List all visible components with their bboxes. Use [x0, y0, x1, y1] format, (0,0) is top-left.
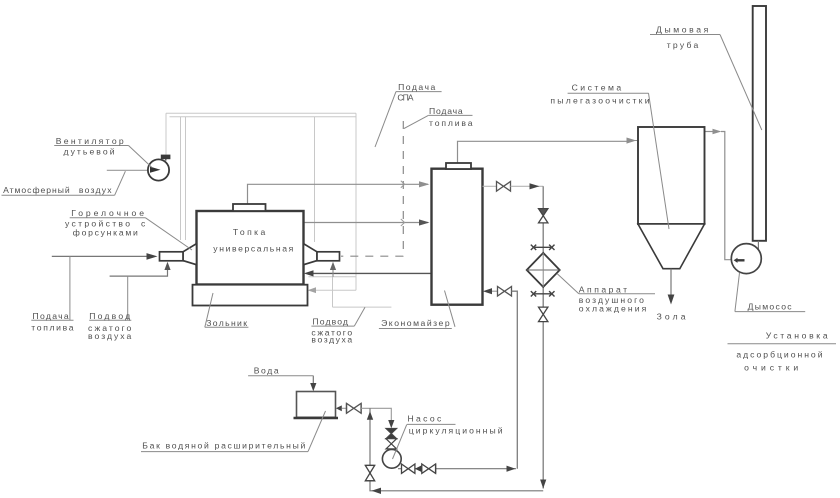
burner left (Горелочное устройство): [160, 244, 197, 265]
economizer body: [432, 169, 483, 305]
leader fuel right: [404, 115, 428, 128]
leader economizer: [445, 291, 456, 327]
underline Аппарат: [579, 293, 655, 295]
leader СПА: [375, 92, 396, 147]
underline Система: [568, 92, 649, 94]
wire: bottom return line: [370, 408, 543, 491]
underline Вентилятор: [54, 145, 128, 147]
svg-text:с: с: [141, 219, 146, 229]
wire: flue line from furnace cap: [248, 184, 429, 204]
cyclone body: [638, 127, 705, 224]
leader burner: [146, 218, 193, 250]
node air arrow up into right burner: [330, 262, 336, 270]
underline Вода: [248, 375, 313, 377]
fan circle: [148, 159, 169, 180]
leader tank: [308, 411, 326, 452]
underline Атмосферный: [2, 194, 115, 196]
wire: right burner air riser: [332, 270, 334, 277]
leader cooler: [557, 274, 579, 294]
node exhauster impeller mark: [737, 259, 745, 261]
leader atmospheric air: [115, 171, 126, 195]
node flow arrow up on left riser: [367, 411, 373, 420]
svg-text:Дымовая: Дымовая: [656, 24, 709, 34]
wire: pump discharge: [398, 468, 516, 470]
wire: fuel dashed line: [341, 121, 403, 256]
wire: duct drop right: [355, 113, 357, 290]
check valve above pump: [386, 429, 397, 439]
wire: duct drop to right burner: [314, 117, 316, 242]
svg-text:пылегазоочистки: пылегазоочистки: [550, 96, 649, 106]
leader chimney: [720, 35, 762, 131]
svg-text:Атмосферный: Атмосферный: [3, 185, 70, 195]
svg-text:СПА: СПА: [397, 93, 413, 103]
wire: top air duct horizontal (double): [166, 112, 356, 114]
valve on discharge 1: [402, 464, 415, 473]
svg-text:Подача: Подача: [429, 106, 463, 116]
wire: return riser: [512, 291, 518, 469]
wire: to riser: [511, 185, 544, 187]
svg-text:Зольник: Зольник: [206, 318, 247, 328]
svg-text:Подача: Подача: [398, 82, 435, 92]
svg-text:универсальная: универсальная: [213, 244, 293, 254]
underline Дымовая: [650, 34, 720, 36]
valve on left riser: [365, 465, 374, 480]
underline Подача топлива: [428, 114, 472, 116]
underline Горелочное: [70, 217, 146, 219]
underline Подача СПА: [396, 91, 442, 93]
valve on return line: [498, 287, 512, 297]
underline Дымосос: [735, 311, 805, 313]
node air arrow left into furnace: [304, 270, 314, 276]
node flow arrow right into riser: [507, 466, 516, 472]
leader fan: [129, 146, 152, 168]
underline Установка: [728, 343, 837, 345]
node fuel arrow into left burner: [147, 253, 158, 260]
wire: to pump drop: [361, 408, 391, 420]
node check arrow on discharge: [415, 465, 422, 472]
wire: hot riser down through cooler: [542, 186, 544, 488]
valve vertical above cooler: [539, 209, 548, 223]
wire: branch to right burner air: [308, 276, 356, 278]
cyclone cone: [638, 224, 705, 269]
furnace top cap: [233, 204, 266, 211]
svg-text:Экономайзер: Экономайзер: [381, 318, 450, 328]
node water arrow down: [310, 383, 316, 391]
node air arrow up into left burner: [164, 262, 170, 270]
valve on discharge 2: [422, 464, 436, 473]
leader ash pan: [205, 293, 213, 327]
wire: compressed air line right side: [309, 272, 432, 274]
node dashed line crossing marks: [401, 181, 405, 188]
expansion tank (Бак водяной расширительный): [297, 392, 336, 418]
underline Насос: [407, 423, 456, 425]
svg-text:циркуляционный: циркуляционный: [409, 426, 503, 436]
node flow arrow right: [530, 183, 540, 189]
node fan impeller arrow: [150, 167, 161, 173]
wire: economizer to cyclone: [458, 141, 628, 163]
underline Зольник: [205, 326, 249, 328]
node removable joint x-x upper: [531, 245, 555, 250]
underline Подача (left): [31, 319, 73, 321]
node flow arrow left on bottom line: [372, 488, 382, 494]
svg-text:Установка: Установка: [766, 331, 828, 341]
leader exhauster: [735, 273, 740, 312]
wire: duct drop to left burner: [180, 117, 182, 240]
valve (gate) on outlet: [497, 182, 511, 192]
node arrow into economizer right: [483, 288, 492, 294]
node arrow down to pump: [388, 420, 394, 428]
leader cyclone: [649, 93, 670, 229]
wire: compressed air stub lines: [332, 277, 334, 307]
svg-text:дутьевой: дутьевой: [64, 146, 115, 156]
leader air label: [127, 276, 129, 320]
wire: outlet to valve: [483, 185, 497, 187]
valve above pump: [386, 439, 397, 449]
wire: branch into ash pan: [316, 289, 356, 291]
svg-text:воздух: воздух: [79, 185, 112, 195]
wire: [492, 290, 498, 292]
underline Подвод (right): [311, 325, 354, 327]
node flow arrow down on riser: [540, 480, 546, 489]
wire: water supply: [312, 376, 314, 385]
svg-text:Вода: Вода: [254, 365, 279, 375]
node flue arrow into economizer 1: [419, 181, 430, 187]
underline Бак: [141, 451, 308, 453]
leader compressed air right: [354, 307, 365, 326]
node flue arrow into economizer 2: [419, 219, 430, 225]
underline Экономайзер: [379, 328, 452, 330]
wire: compressed air line left: [110, 270, 168, 277]
wire: atmospheric air inlet: [107, 169, 148, 171]
svg-text:Подача: Подача: [33, 311, 69, 321]
ash pan (Зольник): [193, 285, 308, 306]
underline Подвод (left): [89, 319, 131, 321]
leader pump: [393, 424, 407, 459]
valve at tank outlet: [347, 403, 362, 413]
node ash arrow down: [668, 295, 675, 305]
wire: flue line from furnace right: [304, 222, 428, 224]
burner right: [304, 244, 340, 265]
wire: [342, 407, 346, 409]
svg-text:Бак водяной расширительный: Бак водяной расширительный: [142, 440, 305, 450]
leader fuel label: [69, 256, 71, 320]
svg-text:Дымосос: Дымосос: [748, 302, 793, 312]
furnace body (Топка универсальная): [197, 211, 304, 285]
economizer top cap: [446, 163, 471, 169]
node flue arrow to smoke duct: [713, 129, 722, 135]
pump circle (Насос циркуляционный): [382, 449, 401, 468]
wire: ash drop: [670, 269, 672, 296]
valve vertical below cooler: [539, 307, 548, 322]
node removable joint x-x lower: [531, 291, 555, 296]
wire: fuel supply line left: [52, 255, 148, 257]
node arrow into tank: [336, 405, 342, 411]
air cooler diamond (Аппарат воздушного охлаждения): [527, 253, 560, 287]
fan motor block: [161, 155, 171, 160]
node flue arrow into cyclone: [627, 138, 637, 144]
wire: cyclone outlet to smoke exhauster: [705, 131, 715, 133]
svg-text:Подвод: Подвод: [313, 316, 348, 326]
wire: fan outlet duct up: [165, 113, 167, 154]
svg-text:Насос: Насос: [408, 414, 443, 424]
